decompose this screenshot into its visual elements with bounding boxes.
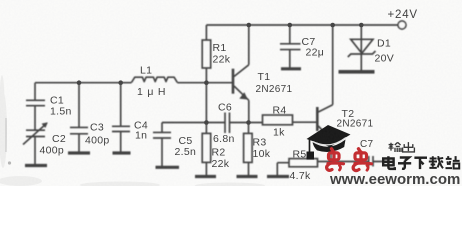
transistor T1 <box>232 69 235 94</box>
ground <box>267 175 289 178</box>
capacitor C7 output <box>369 156 373 167</box>
wire T1 collector riser <box>248 25 250 65</box>
char dian <box>383 156 395 169</box>
resistor R2 <box>202 133 211 162</box>
resistor R5 <box>289 159 318 167</box>
wire output bus <box>318 161 390 163</box>
wire R3 column <box>248 123 250 176</box>
watermark text dianzixiazaizhan <box>383 156 459 169</box>
watermark text shuchu (output) <box>389 142 415 152</box>
scan speck <box>8 161 11 164</box>
ground <box>113 151 131 154</box>
ground <box>195 175 216 178</box>
ground <box>339 70 375 74</box>
capacitor C4 <box>112 126 130 131</box>
capacitor C5 <box>153 123 171 167</box>
capacitor C3 <box>70 127 88 133</box>
capacitor C6 <box>225 113 230 134</box>
capacitor C7 supply <box>280 25 301 68</box>
watermark red bug 1 <box>327 149 344 171</box>
wire T1 emitter drop <box>248 100 250 122</box>
char zi <box>398 158 411 169</box>
transistor T2 <box>316 107 319 131</box>
scan noise left edge <box>5 118 7 152</box>
ground <box>237 175 258 178</box>
resistor R3 <box>244 133 253 162</box>
wire T2 collector riser <box>332 25 334 105</box>
char xia <box>414 158 427 169</box>
char zhan <box>446 156 460 168</box>
char chu <box>403 142 415 152</box>
resistor R1 <box>202 40 211 68</box>
paper background <box>0 0 462 186</box>
capacitor C1 <box>26 83 45 131</box>
wire T2 emitter drop <box>330 139 332 161</box>
ground <box>281 67 301 70</box>
watermark graduation cap <box>307 125 351 160</box>
wire lower bus <box>162 121 317 123</box>
char zai <box>429 156 443 168</box>
ground <box>68 151 90 154</box>
wire C3 column <box>78 83 80 152</box>
capacitor C2 (variable) <box>26 130 45 164</box>
ground <box>25 164 47 167</box>
resistor R4 <box>263 115 293 125</box>
wire R2 column <box>205 83 207 176</box>
wire main tank bus <box>35 82 232 84</box>
watermark red bug 2 <box>353 149 371 171</box>
wire R5 ground leg <box>277 163 289 176</box>
wire top supply rail <box>206 24 398 26</box>
wire R1 column <box>205 25 207 83</box>
zener diode D1 <box>360 25 362 53</box>
terminal +24V <box>398 21 406 29</box>
inductor L1 <box>132 77 178 82</box>
scan noise overlay <box>0 0 462 186</box>
ground <box>156 166 180 169</box>
wire C4 column <box>120 83 122 152</box>
char shu <box>389 142 402 152</box>
